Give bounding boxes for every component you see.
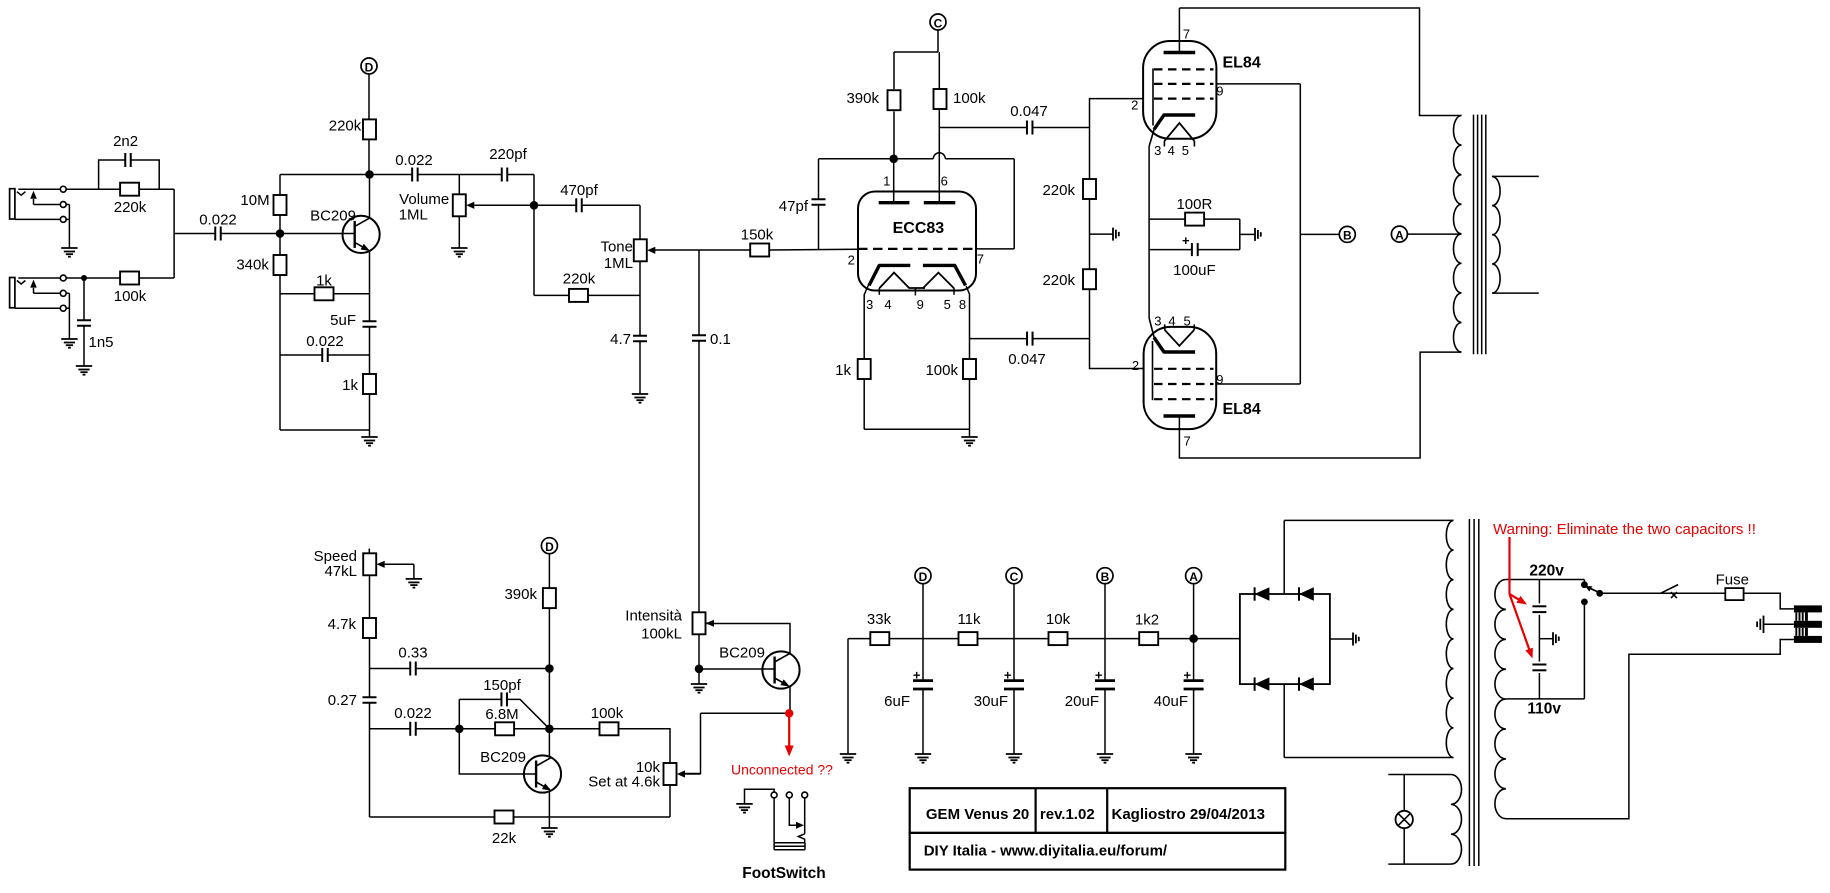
svg-text:EL84: EL84	[1222, 401, 1260, 418]
svg-text:1k: 1k	[316, 273, 332, 290]
svg-text:B: B	[1101, 570, 1110, 584]
svg-text:D: D	[365, 60, 374, 74]
svg-text:0.022: 0.022	[395, 152, 433, 169]
svg-text:2: 2	[1132, 358, 1139, 373]
svg-text:+: +	[913, 667, 921, 682]
svg-text:4: 4	[884, 297, 891, 312]
svg-text:6uF: 6uF	[884, 693, 910, 710]
svg-text:20uF: 20uF	[1065, 693, 1099, 710]
svg-text:100k: 100k	[925, 362, 958, 379]
svg-text:47kL: 47kL	[324, 563, 357, 580]
svg-text:2: 2	[1131, 98, 1138, 113]
svg-text:100uF: 100uF	[1173, 262, 1216, 279]
svg-text:40uF: 40uF	[1154, 693, 1188, 710]
svg-text:0.022: 0.022	[394, 705, 432, 722]
svg-text:C: C	[934, 16, 943, 30]
svg-text:100k: 100k	[114, 288, 147, 305]
svg-text:B: B	[1343, 229, 1352, 243]
svg-text:A: A	[1395, 228, 1404, 242]
svg-text:+: +	[1095, 667, 1103, 682]
svg-text:1ML: 1ML	[399, 206, 428, 223]
svg-text:22k: 22k	[492, 830, 517, 847]
svg-text:Tone: Tone	[600, 238, 633, 255]
svg-text:47pf: 47pf	[779, 198, 809, 215]
svg-text:150pf: 150pf	[483, 677, 521, 694]
svg-text:6: 6	[941, 174, 948, 189]
svg-text:Set at 4.6k: Set at 4.6k	[588, 773, 660, 790]
svg-text:FootSwitch: FootSwitch	[742, 865, 826, 882]
svg-text:4: 4	[1168, 314, 1175, 329]
svg-text:0.022: 0.022	[199, 211, 237, 228]
svg-text:5: 5	[1182, 143, 1189, 158]
svg-text:470pf: 470pf	[560, 182, 598, 199]
svg-text:9: 9	[917, 297, 924, 312]
svg-text:1k: 1k	[342, 377, 358, 394]
svg-text:0.27: 0.27	[328, 692, 357, 709]
svg-text:BC209: BC209	[310, 207, 356, 224]
svg-text:220k: 220k	[114, 199, 147, 216]
svg-text:0.33: 0.33	[398, 644, 427, 661]
svg-text:9: 9	[1216, 84, 1223, 99]
svg-text:9: 9	[1216, 372, 1223, 387]
svg-text:3: 3	[1154, 314, 1161, 329]
svg-text:rev.1.02: rev.1.02	[1040, 806, 1095, 823]
svg-text:33k: 33k	[867, 611, 892, 628]
svg-text:1k2: 1k2	[1135, 611, 1159, 628]
svg-text:4.7k: 4.7k	[328, 616, 357, 633]
svg-text:100k: 100k	[591, 705, 624, 722]
svg-text:100R: 100R	[1176, 196, 1212, 213]
svg-text:Fuse: Fuse	[1716, 571, 1749, 588]
svg-text:11k: 11k	[957, 611, 981, 628]
svg-text:220k: 220k	[1042, 182, 1075, 199]
svg-text:Volume: Volume	[399, 191, 449, 208]
svg-text:0.047: 0.047	[1010, 103, 1048, 120]
svg-text:30uF: 30uF	[974, 693, 1008, 710]
svg-text:2: 2	[848, 252, 855, 267]
svg-text:340k: 340k	[236, 256, 269, 273]
svg-text:6.8M: 6.8M	[485, 706, 518, 723]
svg-text:110v: 110v	[1527, 701, 1561, 718]
svg-text:D: D	[919, 570, 928, 584]
svg-text:Warning: Eliminate the two cap: Warning: Eliminate the two capacitors !!	[1493, 521, 1756, 538]
svg-text:7: 7	[977, 252, 984, 267]
svg-text:0.022: 0.022	[306, 333, 344, 350]
svg-text:220k: 220k	[329, 117, 362, 134]
svg-text:5uF: 5uF	[330, 312, 356, 329]
svg-text:150k: 150k	[741, 226, 774, 243]
svg-text:Intensità: Intensità	[625, 607, 682, 624]
svg-text:1: 1	[883, 174, 890, 189]
svg-text:+: +	[1182, 233, 1190, 248]
svg-text:EL84: EL84	[1222, 55, 1260, 72]
svg-text:D: D	[545, 540, 554, 554]
svg-text:3: 3	[866, 297, 873, 312]
svg-text:BC209: BC209	[719, 644, 765, 661]
svg-text:2n2: 2n2	[113, 133, 138, 150]
svg-text:8: 8	[959, 297, 966, 312]
svg-text:5: 5	[1183, 314, 1190, 329]
svg-text:220pf: 220pf	[489, 146, 527, 163]
svg-text:7: 7	[1183, 434, 1190, 449]
svg-text:BC209: BC209	[480, 749, 526, 766]
svg-text:390k: 390k	[504, 586, 537, 603]
svg-text:+: +	[1184, 667, 1192, 682]
svg-text:DIY Italia - www.diyitalia.eu/: DIY Italia - www.diyitalia.eu/forum/	[924, 842, 1168, 859]
svg-text:1ML: 1ML	[604, 255, 633, 272]
svg-text:+: +	[1004, 667, 1012, 682]
svg-text:ECC83: ECC83	[893, 220, 945, 237]
svg-text:5: 5	[944, 297, 951, 312]
svg-text:C: C	[1010, 570, 1019, 584]
svg-text:A: A	[1189, 570, 1198, 584]
svg-text:220k: 220k	[1042, 272, 1075, 289]
svg-text:4: 4	[1168, 143, 1175, 158]
svg-text:GEM Venus 20: GEM Venus 20	[926, 806, 1029, 823]
svg-text:1k: 1k	[835, 362, 851, 379]
svg-text:3: 3	[1154, 143, 1161, 158]
svg-text:1n5: 1n5	[88, 334, 113, 351]
svg-text:0.1: 0.1	[710, 331, 731, 348]
svg-text:220k: 220k	[563, 270, 596, 287]
svg-text:100k: 100k	[953, 90, 986, 107]
svg-text:390k: 390k	[846, 90, 879, 107]
svg-text:100kL: 100kL	[641, 625, 682, 642]
svg-text:Kagliostro 29/04/2013: Kagliostro 29/04/2013	[1112, 806, 1265, 823]
svg-text:4.7: 4.7	[610, 331, 631, 348]
svg-text:10M: 10M	[240, 192, 269, 209]
svg-text:220v: 220v	[1529, 562, 1564, 579]
svg-text:Unconnected ??: Unconnected ??	[731, 762, 833, 778]
svg-text:7: 7	[1183, 26, 1190, 41]
svg-text:10k: 10k	[1046, 611, 1071, 628]
svg-text:0.047: 0.047	[1008, 351, 1046, 368]
